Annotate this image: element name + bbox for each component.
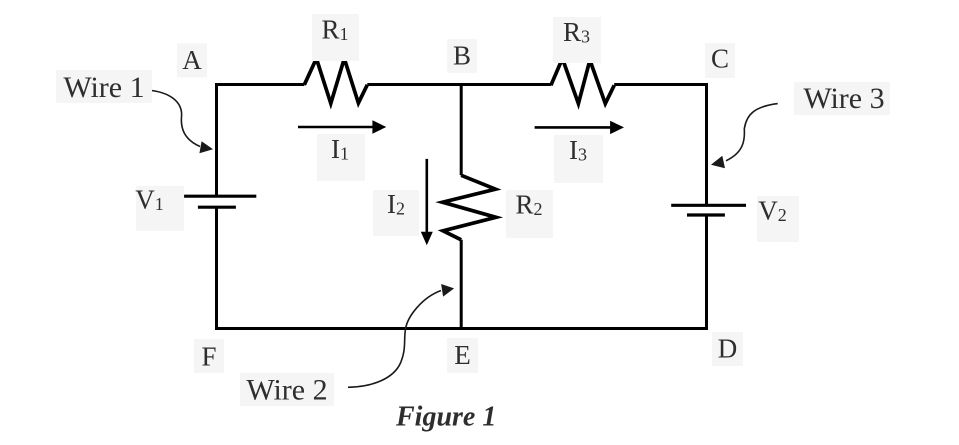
wire: node B down to R2 [460,85,463,176]
current arrow I3 [535,121,624,134]
label R1 [312,14,359,61]
node E [447,338,478,373]
label R3 [553,17,601,63]
wire pointer arrow: Wire 1 [148,90,214,153]
battery V2 short plate [687,213,725,216]
current arrow I2 [421,159,433,245]
label V2 [757,196,799,243]
wire: bottom loop F-E-D [217,207,707,328]
label I2 [373,189,419,236]
node F [194,339,224,373]
node A [177,44,207,78]
wire: R1 to B to R3 [367,83,551,86]
node B [447,39,477,73]
label Wire 3 [794,82,890,115]
svg-text:F: F [201,342,216,372]
node D [712,332,743,366]
label Wire 1 [56,70,152,104]
resistor R1 [304,59,367,104]
svg-text:Wire 1: Wire 1 [63,71,144,104]
wire: top segment A to R1 [217,85,305,197]
battery V1 long plate [184,195,256,198]
wire: R3 to C and down to V2 [614,85,706,206]
svg-text:D: D [718,334,738,364]
label I1 [317,134,365,181]
current arrow I1 [298,120,386,133]
label R2 [506,190,553,238]
wire pointer arrow: Wire 3 [711,104,778,169]
battery V1 short plate [198,206,236,209]
svg-text:E: E [454,340,471,370]
resistor R2 [443,175,497,240]
wire: R2 down to node E [460,240,463,329]
svg-text:C: C [711,44,729,74]
svg-text:B: B [453,41,471,71]
svg-text:Wire 3: Wire 3 [803,82,884,115]
svg-text:Wire 2: Wire 2 [246,374,327,407]
svg-text:Figure 1: Figure 1 [395,402,496,433]
node C [705,43,735,78]
svg-text:A: A [182,45,202,75]
label V1 [135,184,184,231]
resistor R3 [551,59,614,104]
battery V2 long plate [671,204,746,207]
label I3 [554,135,603,183]
label Wire 2 [240,373,334,407]
wire pointer arrow: Wire 2 [348,284,454,387]
